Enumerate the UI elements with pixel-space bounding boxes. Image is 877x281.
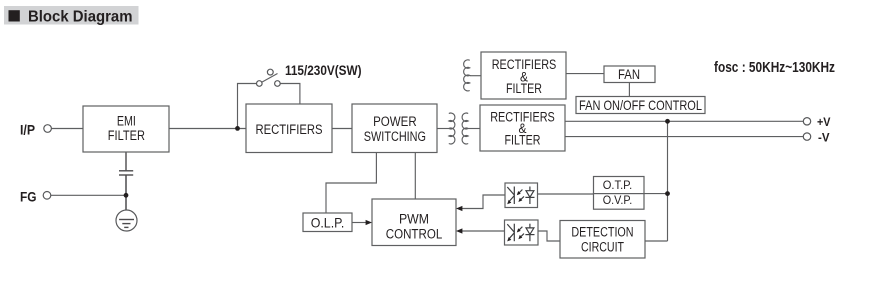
svg-text:fosc : 50KHz~130KHz: fosc : 50KHz~130KHz — [714, 59, 835, 76]
svg-text:O.T.P.: O.T.P. — [603, 178, 633, 192]
svg-text:I/P: I/P — [20, 121, 35, 137]
svg-text:O.V.P.: O.V.P. — [603, 193, 633, 207]
svg-text:SWITCHING: SWITCHING — [364, 129, 426, 144]
svg-text:PWM: PWM — [399, 211, 429, 226]
svg-text:-V: -V — [818, 130, 830, 144]
svg-text:FAN ON/OFF CONTROL: FAN ON/OFF CONTROL — [579, 98, 702, 113]
svg-text:EMI: EMI — [117, 114, 136, 129]
svg-text:CONTROL: CONTROL — [386, 226, 443, 241]
svg-text:Block Diagram: Block Diagram — [28, 8, 133, 25]
svg-text:FILTER: FILTER — [108, 128, 145, 143]
svg-text:+V: +V — [817, 115, 831, 129]
svg-text:FAN: FAN — [618, 67, 640, 82]
svg-text:CIRCUIT: CIRCUIT — [581, 240, 624, 255]
svg-text:RECTIFIERS: RECTIFIERS — [256, 122, 323, 137]
svg-text:POWER: POWER — [373, 114, 417, 129]
svg-text:FILTER: FILTER — [505, 133, 541, 148]
svg-text:FG: FG — [20, 190, 37, 205]
svg-text:FILTER: FILTER — [506, 81, 542, 96]
svg-text:O.L.P.: O.L.P. — [311, 215, 345, 231]
svg-text:DETECTION: DETECTION — [571, 225, 633, 240]
svg-text:115/230V(SW): 115/230V(SW) — [285, 63, 362, 78]
